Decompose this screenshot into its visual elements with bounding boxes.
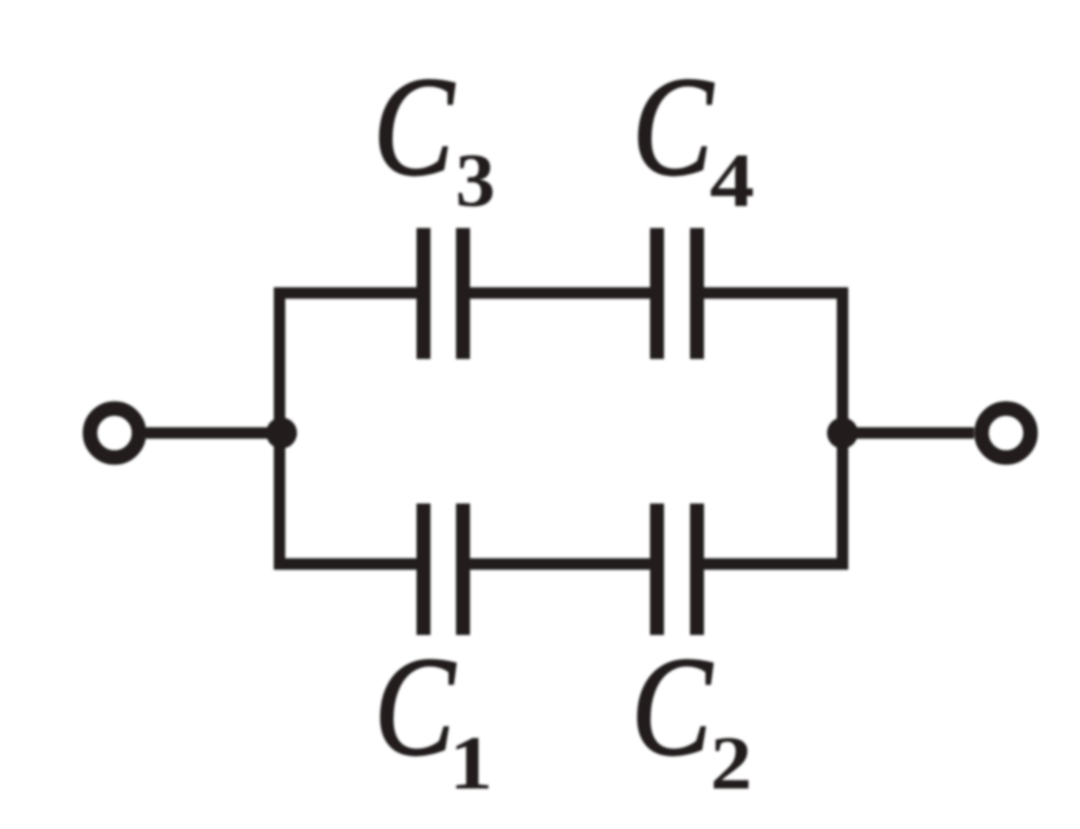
svg-text:2: 2 [710,722,752,806]
wire left lead [146,427,281,439]
wire top rail left segment [274,287,418,299]
wire right lead [841,427,974,439]
wire bottom rail right segment [704,558,849,570]
svg-text:1: 1 [449,721,493,805]
label C2 [631,628,752,806]
capacitor C4 [657,228,697,359]
wire bottom rail left segment [274,558,418,570]
terminal right [982,409,1031,458]
wire left vertical [274,288,286,570]
node junction right [827,418,858,449]
capacitor C2 [657,504,697,636]
terminal left [90,409,139,458]
svg-text:C: C [374,628,456,785]
wire bottom rail middle segment [470,558,652,570]
label C4 [632,48,754,223]
svg-text:4: 4 [710,138,755,222]
wire top rail right segment [704,287,849,299]
svg-text:C: C [373,48,455,205]
capacitor C1 [424,504,464,636]
capacitor C3 [424,228,464,359]
label C1 [374,628,493,805]
wire top rail middle segment [470,287,652,299]
label C3 [373,48,495,223]
svg-text:C: C [631,628,713,785]
svg-text:3: 3 [455,139,495,223]
wire right vertical [837,288,849,570]
node junction left [266,418,297,449]
svg-text:C: C [632,48,714,205]
